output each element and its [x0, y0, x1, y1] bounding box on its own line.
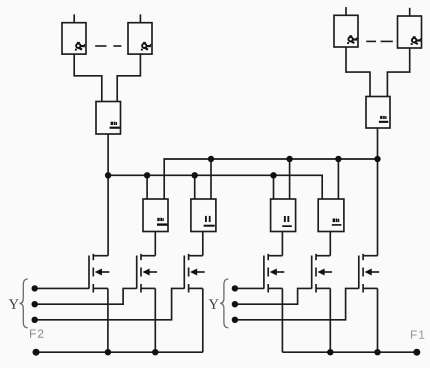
wire R2 to block E1: [117, 54, 140, 101]
wire block E2 output down to upper bus and Q6 drain: [377, 128, 379, 256]
wire block E1 output down to lower bus and Q1 drain: [107, 134, 109, 256]
transistor Q5: [312, 254, 332, 293]
transistor Q6: [359, 254, 379, 293]
brace right: [220, 279, 228, 328]
crystal box R1 (top-left pair, left): [62, 14, 86, 54]
F2 bus dots: [33, 349, 159, 356]
Q1 source down to F2 bus: [107, 288, 109, 352]
transistor Q1: [89, 254, 109, 293]
wire R3 to block E2: [346, 47, 370, 97]
label F2: [30, 329, 43, 337]
label Y (left): [9, 299, 19, 308]
node upper bus / box C: [289, 159, 291, 199]
crystal box R3 (top-right pair, left): [334, 7, 358, 47]
wire R1 to block E1: [74, 54, 102, 101]
crystal box R4 (top-right pair, right): [398, 8, 422, 48]
Y input dots (right): [232, 285, 238, 323]
F1 bus: [282, 351, 416, 353]
Y input line 1 (right) to Q4 gate: [235, 287, 264, 289]
Y input line 3 (left) to Q3 gate: [35, 288, 185, 319]
divider box A: [143, 199, 168, 232]
Y input line 2 (right) to Q5 gate: [235, 288, 312, 304]
Q6 source down to F1 bus: [377, 288, 379, 352]
crystal box R2 (top-left pair, right): [128, 14, 152, 54]
Y input line 2 (left) to Q2 gate: [35, 288, 137, 304]
F2 bus: [36, 351, 203, 353]
wire box B to Q3 drain: [202, 232, 204, 256]
brace left: [20, 279, 28, 328]
wire box D to Q5 drain: [329, 232, 331, 256]
oscillator block E1: [96, 102, 121, 135]
Q4 source down to F1 bus corner: [281, 288, 283, 352]
lower bus: [108, 175, 322, 199]
label Y (right): [209, 299, 219, 308]
wire box C to Q4 drain: [281, 232, 283, 256]
label F1: [411, 331, 424, 339]
Q3 source down to F2 bus corner: [202, 288, 204, 352]
node lower bus / box A: [146, 175, 148, 199]
node upper bus / box B: [210, 159, 212, 199]
upper bus: [164, 159, 377, 199]
divider box D: [318, 199, 344, 232]
transistor Q3: [184, 254, 204, 293]
junction dots upper bus: [208, 156, 381, 162]
node upper bus / box D: [337, 159, 339, 199]
oscillator block E2: [366, 97, 390, 129]
wire R4 to block E2: [387, 48, 409, 97]
node lower bus / box C: [273, 175, 275, 199]
F1 bus dots: [327, 349, 420, 356]
dashed link between R3 and R4: [366, 40, 376, 42]
divider box B: [191, 199, 216, 232]
Q2 source down to F2 bus: [154, 288, 156, 352]
Y input line 3 (right) to Q6 gate: [235, 288, 359, 319]
Y input dots (left): [32, 285, 38, 323]
transistor Q2: [137, 254, 157, 293]
junction dots lower bus: [105, 172, 277, 178]
transistor Q4: [264, 254, 284, 293]
wire box A to Q2 drain: [154, 232, 156, 256]
divider box C: [271, 199, 296, 232]
Q5 source down to F1 bus: [329, 288, 331, 352]
Y input line 1 (left) to Q1 gate: [35, 287, 89, 289]
node lower bus / box B: [194, 175, 196, 199]
dashed link between R1 and R2: [95, 45, 106, 47]
